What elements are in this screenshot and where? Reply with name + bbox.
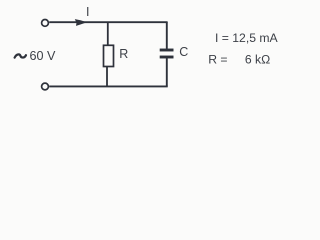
svg-text:60 V: 60 V (30, 49, 57, 63)
wire capacitor branch top (166, 22, 168, 49)
AC source symbol ~ (15, 54, 26, 57)
wire bottom (49, 85, 168, 87)
svg-text:C: C (179, 45, 188, 59)
capacitor C bottom plate (160, 56, 174, 59)
terminal top-left (42, 20, 49, 27)
resistor R (104, 45, 114, 66)
svg-text:R: R (119, 47, 128, 61)
svg-text:6 kΩ: 6 kΩ (245, 53, 270, 67)
capacitor C top plate (160, 49, 174, 52)
current arrow (75, 19, 87, 26)
wire top (49, 21, 167, 23)
svg-text:I = 12,5 mA: I = 12,5 mA (215, 31, 279, 45)
svg-text:I: I (86, 5, 89, 19)
wire capacitor branch bottom (166, 58, 168, 86)
svg-text:R =: R = (208, 53, 227, 67)
wire resistor branch bottom (106, 67, 108, 87)
terminal bottom-left (42, 83, 49, 90)
wire resistor branch top (107, 22, 109, 45)
